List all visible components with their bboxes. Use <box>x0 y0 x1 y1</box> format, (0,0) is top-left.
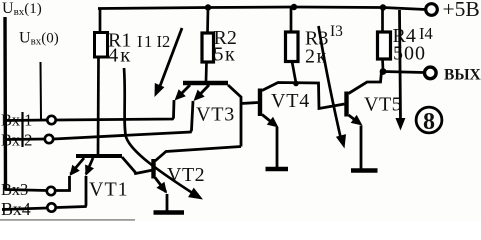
svg-text:VT2: VT2 <box>167 164 205 186</box>
svg-text:4к: 4к <box>108 45 132 67</box>
emitter wire down <box>276 127 279 168</box>
base bar <box>258 89 262 117</box>
base bar <box>76 154 122 158</box>
svg-text:VT4: VT4 <box>271 90 310 112</box>
svg-text:VT3: VT3 <box>196 104 235 126</box>
node: R3 to VT4 collector wire <box>293 81 299 87</box>
svg-text:VT1: VT1 <box>89 179 129 201</box>
transistor VT5 <box>347 72 403 171</box>
resistor R4 <box>378 8 427 70</box>
node: output junction below R4 <box>380 68 387 75</box>
emitter wire down <box>166 194 169 212</box>
svg-text:ВЫХ: ВЫХ <box>444 67 481 84</box>
collector <box>122 157 153 174</box>
top +5V rail wire <box>98 7 426 10</box>
emitter with arrow <box>262 115 275 126</box>
ground bar VT4 <box>266 167 289 171</box>
emitter 2 with arrow <box>86 158 93 174</box>
emitter with arrow <box>155 178 166 193</box>
circled 8 gate number <box>416 107 442 135</box>
wire to output terminal <box>383 72 425 73</box>
emitter 1 with arrow <box>71 158 85 174</box>
node: rail junction to R3 <box>291 4 297 10</box>
wire Vx2 to VT3 emitter2 <box>54 101 193 139</box>
svg-text:I1: I1 <box>137 32 154 51</box>
node: rail junction to R2 <box>205 4 211 10</box>
wire: thick left vertical line from Uvx(1) <box>3 17 7 191</box>
emitter 1 with arrow <box>177 85 190 98</box>
output terminal circle <box>425 67 437 79</box>
wire: short vertical joining Vx1 and Vx2 rows <box>21 112 23 147</box>
svg-text:8: 8 <box>423 109 435 135</box>
ground bar VT5 <box>351 168 378 172</box>
emitter 2 with arrow <box>196 85 209 99</box>
ground bar VT2 <box>154 210 185 214</box>
collector <box>262 83 345 109</box>
current arrow I1/I2 <box>155 28 183 97</box>
wire Vx1 to VT3 emitter1 <box>57 100 175 120</box>
scan edge artifacts <box>0 219 135 221</box>
svg-text:500: 500 <box>393 43 426 65</box>
current arrow I4 <box>395 10 405 131</box>
collector up to node wire <box>155 147 241 162</box>
node: rail junction to R4 <box>380 4 386 10</box>
base bar <box>183 81 228 85</box>
svg-text:I2: I2 <box>157 32 171 51</box>
base bar <box>344 92 348 117</box>
emitter wire down <box>360 126 363 170</box>
collector up to output node <box>349 72 382 94</box>
svg-text:I4: I4 <box>419 24 433 43</box>
current arrow I3 <box>319 26 347 149</box>
resistor R2 <box>202 8 237 81</box>
svg-text:5к: 5к <box>214 44 237 66</box>
wire Vx4 to VT1 emitter2 <box>57 176 86 208</box>
emitter with arrow <box>349 115 360 123</box>
current arrow (curved, through VT1 to VT2) <box>124 68 203 200</box>
collector <box>228 85 241 147</box>
transistor VT2 <box>154 147 242 213</box>
+5V terminal circle <box>426 4 438 16</box>
transistor VT3 (two emitters) <box>175 83 242 147</box>
wire: VT3 collector node to VT4 base <box>241 103 258 104</box>
resistor R3 <box>286 7 329 83</box>
wire: drop line from Uvx(0) <box>40 62 43 119</box>
svg-text:VT5: VT5 <box>364 94 402 116</box>
wire Vx3 to VT1 emitter1 <box>55 176 69 191</box>
svg-text:I3: I3 <box>330 23 343 40</box>
resistor R1 <box>95 8 133 154</box>
svg-text:+5В: +5В <box>443 0 480 21</box>
transistor VT1 (multi-emitter) <box>70 156 154 201</box>
transistor VT4 <box>260 83 345 170</box>
base bar <box>151 159 155 179</box>
